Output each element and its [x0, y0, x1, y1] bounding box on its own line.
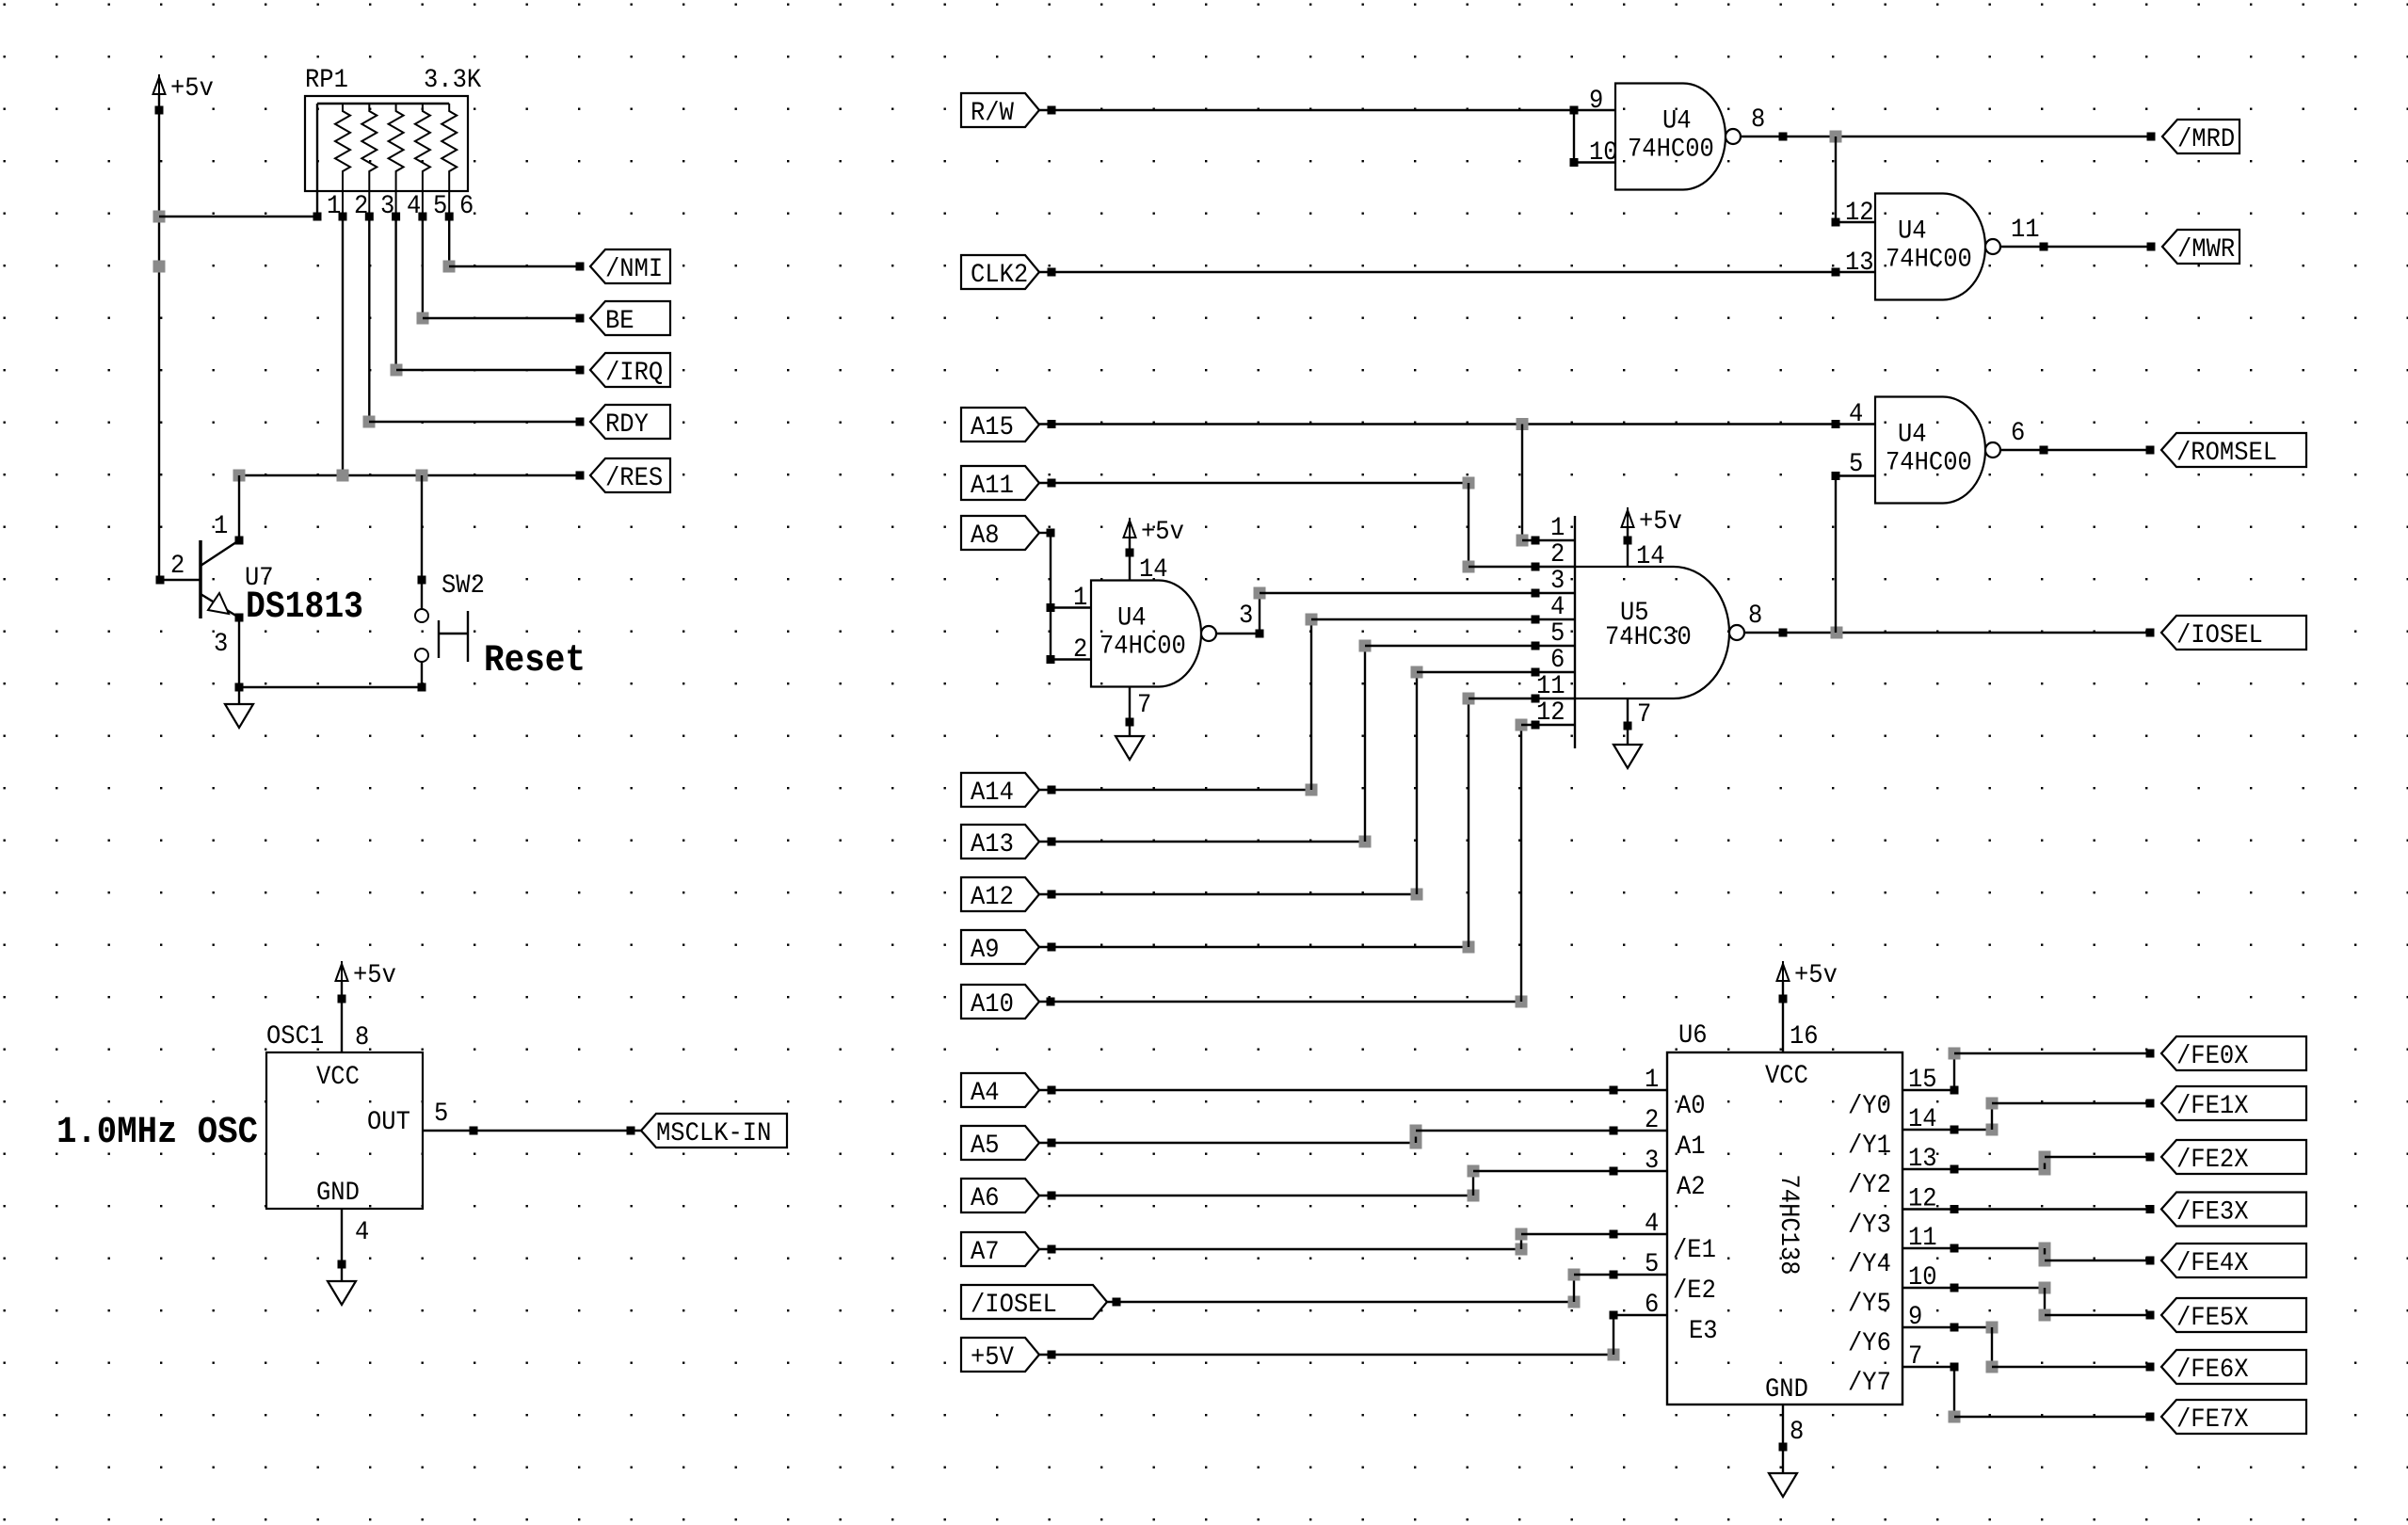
svg-text:/MRD: /MRD — [2177, 125, 2235, 154]
svg-text:6: 6 — [2011, 419, 2025, 448]
svg-text:/FE0X: /FE0X — [2176, 1042, 2249, 1071]
nand gate U5 input rail — [1574, 516, 1576, 748]
resistor pack RP1 — [305, 96, 468, 217]
wire U4d out to U5 pin 3 — [1216, 587, 1575, 638]
wire OSC1 pin 4 down — [338, 1209, 346, 1281]
svg-text:74HC00: 74HC00 — [1886, 449, 1972, 478]
wire U6 /Y7 to /FE7X — [1902, 1363, 2155, 1423]
tag /RES — [590, 458, 670, 493]
tag /MRD — [2162, 120, 2239, 154]
svg-text:/NMI: /NMI — [605, 255, 663, 284]
U4 pin 5 label — [1849, 450, 1863, 479]
svg-text:2: 2 — [1073, 635, 1087, 665]
svg-text:/FE4X: /FE4X — [2176, 1249, 2249, 1278]
label 74HC138 (U6) — [1774, 1175, 1803, 1276]
wire RP1 pin 5 to BE — [417, 217, 585, 325]
svg-text:MSCLK-IN: MSCLK-IN — [656, 1119, 771, 1148]
svg-text:12: 12 — [1845, 199, 1874, 228]
svg-text:/Y6: /Y6 — [1848, 1329, 1891, 1358]
wire RP1 pin 3 to RDY — [363, 217, 585, 428]
label OUT (OSC1) — [367, 1108, 410, 1137]
RP1 pin junction dots — [313, 213, 454, 221]
U6 pin name A2 — [1677, 1173, 1706, 1202]
tag /IOSEL (input) — [961, 1285, 1107, 1320]
tag A11 — [961, 466, 1039, 501]
tag /IRQ — [590, 353, 670, 388]
OSC1 pin 8 label — [355, 1023, 369, 1052]
svg-text:14: 14 — [1636, 542, 1665, 571]
tag /IOSEL (output) — [2161, 616, 2306, 650]
tag /FE5X — [2161, 1298, 2306, 1333]
U6 pin name /E2 — [1673, 1276, 1716, 1306]
OSC1 pin 5 label — [434, 1100, 448, 1129]
svg-text:7: 7 — [1637, 700, 1651, 730]
wire +5v to U4 pin 14 — [1129, 538, 1131, 581]
U6 pin 16 label — [1790, 1022, 1819, 1051]
U4 pin 3 label — [1239, 602, 1253, 631]
svg-text:2: 2 — [1550, 540, 1565, 570]
svg-text:A9: A9 — [971, 936, 1000, 965]
U6 pin name /Y4 — [1848, 1250, 1891, 1279]
tag RDY — [590, 405, 670, 440]
transistor U7 body — [201, 540, 244, 622]
wire A15 branch to U5 pin 1 — [1517, 425, 1576, 547]
svg-text:1: 1 — [1073, 584, 1087, 613]
label 74HC00 (U4d) — [1100, 633, 1186, 662]
label OSC1 — [266, 1022, 324, 1051]
label U6 — [1678, 1021, 1708, 1051]
svg-text:VCC: VCC — [1765, 1062, 1808, 1091]
tag MSCLK-IN — [641, 1114, 787, 1148]
U6 pin 14 label — [1908, 1105, 1937, 1134]
label VCC (OSC1) — [316, 1063, 360, 1092]
tag /FE2X — [2161, 1140, 2306, 1175]
svg-text:+5v: +5v — [170, 74, 214, 104]
label RP1 — [305, 66, 348, 95]
wire /RES to SW2 — [418, 475, 426, 609]
wire U4a out to /MRD — [1741, 131, 2156, 143]
svg-text:6: 6 — [459, 192, 474, 221]
label 74HC00 (U4c) — [1886, 449, 1972, 478]
svg-text:11: 11 — [1536, 672, 1565, 701]
wire +5v to U6 pin 16 — [1782, 981, 1784, 1052]
tag +5V — [961, 1338, 1039, 1372]
wire A11 to U5 pin 2 — [1039, 477, 1575, 573]
svg-text:1.0MHz OSC: 1.0MHz OSC — [56, 1112, 258, 1154]
svg-text:13: 13 — [1845, 249, 1874, 278]
U4 pin 13 label — [1845, 249, 1874, 278]
U4 pin 9 label — [1589, 87, 1603, 116]
U6 pin name /Y5 — [1848, 1290, 1891, 1319]
U6 pin name /Y1 — [1848, 1132, 1891, 1161]
power +5v symbol (OSC1) — [336, 961, 396, 1003]
svg-text:GND: GND — [316, 1179, 360, 1208]
svg-text:/ROMSEL: /ROMSEL — [2176, 439, 2277, 468]
label SW2 — [441, 571, 485, 601]
tag A15 — [961, 408, 1039, 442]
svg-text:GND: GND — [1765, 1375, 1808, 1405]
svg-text:5: 5 — [1550, 619, 1565, 649]
wire U6 /Y1 to /FE1X — [1902, 1098, 2155, 1136]
wire A13 to U5 pin 5 — [1039, 640, 1575, 848]
U4 pin 4 label — [1849, 400, 1863, 429]
U6 pin 9 label — [1908, 1303, 1922, 1332]
wire A7 to U6 pin 4 — [1039, 1228, 1667, 1256]
tag A4 — [961, 1073, 1039, 1108]
tag /FE6X — [2161, 1350, 2306, 1385]
U6 pin name /Y3 — [1848, 1212, 1891, 1241]
svg-text:74HC00: 74HC00 — [1886, 246, 1972, 275]
svg-text:12: 12 — [1536, 698, 1565, 728]
U4 pin 14 label — [1139, 555, 1168, 585]
svg-text:/IOSEL: /IOSEL — [971, 1291, 1057, 1320]
wire CLK2 to U4 pin 13 — [1039, 268, 1875, 277]
U4 pin 1 label — [1073, 584, 1087, 613]
U6 pin name /Y7 — [1848, 1369, 1891, 1398]
U5 pin 14 label — [1636, 542, 1665, 571]
svg-text:/IRQ: /IRQ — [605, 359, 663, 388]
U5 pin 6 label — [1550, 646, 1565, 675]
svg-text:A7: A7 — [971, 1238, 1000, 1267]
U6 pin 4 label — [1645, 1210, 1659, 1239]
wire A14 to U5 pin 4 — [1039, 614, 1575, 796]
svg-text:SW2: SW2 — [441, 571, 485, 601]
wire A6 to U6 pin 3 — [1039, 1165, 1667, 1202]
label 74HC00 (U4a) — [1628, 136, 1714, 165]
label U5 — [1620, 599, 1649, 628]
svg-text:4: 4 — [1849, 400, 1863, 429]
svg-text:/Y5: /Y5 — [1848, 1290, 1891, 1319]
svg-text:8: 8 — [1748, 602, 1762, 631]
svg-text:+5v: +5v — [1141, 518, 1184, 547]
wire +5v to U5 pin 14 — [1627, 527, 1629, 567]
svg-text:A2: A2 — [1677, 1173, 1706, 1202]
nand gate U4b — [1875, 194, 2000, 300]
svg-text:RDY: RDY — [605, 410, 649, 440]
label U4 (U4b) — [1898, 217, 1927, 247]
ground (U4d) — [1116, 736, 1144, 760]
U6 pin 10 label — [1908, 1263, 1937, 1292]
U6 pin name /Y2 — [1848, 1171, 1891, 1200]
nand gate U4c — [1875, 397, 2000, 504]
svg-text:Reset: Reset — [484, 640, 586, 682]
U6 pin name A1 — [1677, 1132, 1706, 1162]
svg-text:A12: A12 — [971, 883, 1014, 912]
label 74HC30 — [1605, 623, 1692, 652]
svg-text:74HC30: 74HC30 — [1605, 623, 1692, 652]
label U4 (U4c) — [1898, 421, 1927, 450]
label U4 (U4a) — [1662, 107, 1692, 136]
U5 pin 4 label — [1550, 593, 1565, 622]
wire A15 to U4 pin 4 — [1039, 418, 1875, 430]
wire A9 to U5 pin 11 — [1039, 693, 1575, 954]
tag A13 — [961, 825, 1039, 859]
nand gate U5 — [1575, 567, 1744, 698]
svg-text:6: 6 — [1550, 646, 1565, 675]
switch SW2 — [415, 609, 468, 687]
tag /FE7X — [2161, 1400, 2306, 1435]
U5 pin 12 label — [1536, 698, 1565, 728]
svg-text:A11: A11 — [971, 472, 1014, 501]
wire +5v to U7 pin 2 — [156, 576, 201, 585]
svg-text:VCC: VCC — [316, 1063, 360, 1092]
tag A8 — [961, 516, 1039, 551]
svg-text:/Y4: /Y4 — [1848, 1250, 1891, 1279]
svg-text:OUT: OUT — [367, 1108, 410, 1137]
svg-text:74HC138: 74HC138 — [1774, 1175, 1803, 1276]
U6 pin name /E1 — [1673, 1236, 1716, 1265]
svg-text:U4: U4 — [1898, 421, 1927, 450]
svg-text:+5v: +5v — [353, 961, 396, 990]
svg-text:RP1: RP1 — [305, 66, 348, 95]
U4 pin 8 label — [1751, 105, 1765, 135]
svg-text:/Y2: /Y2 — [1848, 1171, 1891, 1200]
svg-text:/Y7: /Y7 — [1848, 1369, 1891, 1398]
svg-text:11: 11 — [2011, 216, 2040, 245]
ground (U7) — [225, 687, 253, 728]
label GND (U6) — [1765, 1375, 1808, 1405]
wire U7 gnd to SW2 — [235, 683, 426, 692]
svg-text:8: 8 — [355, 1023, 369, 1052]
U5 pin 11 label — [1536, 672, 1565, 701]
RP1 pin numbers — [327, 192, 474, 221]
svg-text:BE: BE — [605, 307, 634, 336]
tag A7 — [961, 1232, 1039, 1267]
svg-text:/Y3: /Y3 — [1848, 1212, 1891, 1241]
svg-text:A10: A10 — [971, 990, 1014, 1019]
wire RP1 pin 2 to /RES — [342, 217, 344, 475]
U5 pin 8 label — [1748, 602, 1762, 631]
wire U6 /Y4 to /FE4X — [1902, 1243, 2155, 1267]
power +5v symbol (RP1 rail) — [153, 74, 214, 115]
svg-text:3: 3 — [214, 630, 228, 659]
wire RP1 pin 4 to /IRQ — [391, 217, 585, 377]
wire /IOSEL to U6 pin 5 — [1107, 1269, 1667, 1308]
decoder U6 74HC138 box — [1667, 1052, 1902, 1405]
U7 pin 3 label — [214, 630, 228, 659]
label 74HC00 (U4b) — [1886, 246, 1972, 275]
svg-text:A14: A14 — [971, 779, 1014, 808]
tag A6 — [961, 1179, 1039, 1213]
wire A12 to U5 pin 6 — [1039, 666, 1575, 901]
svg-text:A13: A13 — [971, 830, 1014, 859]
svg-text:/FE7X: /FE7X — [2176, 1405, 2249, 1435]
U4 pin 6 label — [2011, 419, 2025, 448]
svg-text:/E2: /E2 — [1673, 1276, 1716, 1306]
svg-text:A6: A6 — [971, 1184, 1000, 1213]
svg-text:8: 8 — [1751, 105, 1765, 135]
ground (U5) — [1613, 745, 1642, 768]
wire +5v to RP1 pin 1 — [159, 213, 322, 221]
power +5v symbol (U5) — [1622, 507, 1682, 545]
svg-text:8: 8 — [1790, 1418, 1804, 1447]
tag /FE0X — [2161, 1036, 2306, 1071]
tag R/W — [961, 93, 1039, 128]
label U4 (U4d) — [1117, 604, 1147, 634]
nand gate U4d — [1091, 581, 1216, 687]
svg-text:5: 5 — [434, 1100, 448, 1129]
svg-text:4: 4 — [1550, 593, 1565, 622]
svg-text:4: 4 — [355, 1218, 369, 1247]
svg-text:U4: U4 — [1898, 217, 1927, 247]
U7 pin 1 label — [214, 512, 228, 541]
label 1.0MHz OSC — [56, 1112, 258, 1154]
wire R/W to U4 pin 9 — [1039, 106, 1615, 115]
wire /RES to U7 pin 1 — [235, 475, 244, 545]
U6 pin 3 label — [1645, 1147, 1659, 1176]
nand gate U4a — [1615, 84, 1741, 190]
svg-text:U4: U4 — [1117, 604, 1147, 634]
label 3.3K — [424, 66, 481, 95]
svg-text:1: 1 — [214, 512, 228, 541]
U6 pin 6 label — [1645, 1291, 1659, 1320]
tag CLK2 — [961, 255, 1039, 290]
svg-text:E3: E3 — [1689, 1317, 1718, 1346]
label DS1813 — [246, 586, 363, 629]
svg-text:/FE1X: /FE1X — [2176, 1092, 2249, 1121]
U6 pin 11 label — [1908, 1224, 1937, 1253]
ground (OSC1) — [328, 1281, 356, 1305]
wire /MRD branch to U4 pin 12 — [1832, 136, 1876, 227]
svg-text:7: 7 — [1137, 691, 1151, 720]
svg-text:A0: A0 — [1677, 1092, 1706, 1121]
tag A9 — [961, 930, 1039, 965]
U6 pin 7 label — [1908, 1342, 1922, 1372]
tag /FE1X — [2161, 1086, 2306, 1121]
U4 pin 10 label — [1589, 138, 1618, 168]
svg-text:DS1813: DS1813 — [246, 586, 363, 629]
power +5v symbol (U6) — [1777, 961, 1838, 1003]
U6 pin name E3 — [1689, 1317, 1718, 1346]
svg-text:A4: A4 — [971, 1079, 1000, 1108]
svg-text:A8: A8 — [971, 522, 1000, 551]
U6 pin name /Y6 — [1848, 1329, 1891, 1358]
svg-text:3: 3 — [1239, 602, 1253, 631]
U6 pin 12 label — [1908, 1185, 1937, 1214]
U7 pin 2 label — [170, 552, 185, 581]
tag A14 — [961, 773, 1039, 808]
U6 pin 15 label — [1908, 1066, 1937, 1095]
U6 pin name A0 — [1677, 1092, 1706, 1121]
svg-text:10: 10 — [1589, 138, 1618, 168]
OSC1 pin 4 label — [355, 1218, 369, 1247]
svg-text:CLK2: CLK2 — [971, 261, 1028, 290]
svg-text:/IOSEL: /IOSEL — [2176, 621, 2263, 650]
wire /RES net — [233, 470, 585, 482]
wire U7 pin 3 down — [238, 618, 240, 687]
wire U6 /Y3 to /FE3X — [1902, 1205, 2155, 1213]
U6 pin 5 label — [1645, 1250, 1659, 1279]
label VCC (U6) — [1765, 1062, 1808, 1091]
tag A5 — [961, 1126, 1039, 1161]
wire A10 to U5 pin 12 — [1039, 719, 1575, 1008]
svg-text:A15: A15 — [971, 413, 1014, 442]
svg-text:/FE3X: /FE3X — [2176, 1198, 2249, 1228]
svg-text:74HC00: 74HC00 — [1100, 633, 1186, 662]
wire U5 gnd — [1624, 698, 1632, 745]
svg-text:/RES: /RES — [605, 464, 663, 493]
tag A10 — [961, 985, 1039, 1019]
svg-text:+5V: +5V — [971, 1343, 1014, 1372]
tag A12 — [961, 877, 1039, 912]
wire U6 gnd — [1779, 1405, 1788, 1473]
ground (U6) — [1769, 1473, 1797, 1497]
svg-text:U4: U4 — [1662, 107, 1692, 136]
svg-text:+5v: +5v — [1639, 507, 1682, 537]
svg-text:/FE2X: /FE2X — [2176, 1146, 2249, 1175]
wire U4c out to /ROMSEL — [2000, 446, 2155, 455]
U4 pin 11 label — [2011, 216, 2040, 245]
svg-text:/FE6X: /FE6X — [2176, 1356, 2249, 1385]
svg-text:R/W: R/W — [971, 99, 1014, 128]
U4 pin 12 label — [1845, 199, 1874, 228]
wire OSC1 OUT to MSCLK-IN — [423, 1127, 641, 1135]
wire U6 /Y2 to /FE2X — [1902, 1151, 2155, 1176]
wire U5 out to /IOSEL — [1744, 627, 2155, 639]
svg-text:+5v: +5v — [1794, 961, 1838, 990]
tag /FE4X — [2161, 1244, 2306, 1278]
wire A5 to U6 pin 2 — [1039, 1125, 1667, 1149]
wire A8 to U4 pins 1,2 — [1039, 529, 1091, 665]
U6 pin 13 label — [1908, 1145, 1937, 1174]
wire U4b out to /MWR — [2000, 243, 2156, 251]
wire U6 /Y6 to /FE6X — [1902, 1322, 2155, 1373]
svg-text:A5: A5 — [971, 1132, 1000, 1161]
svg-text:16: 16 — [1790, 1022, 1819, 1051]
U5 pin 7 label — [1637, 700, 1651, 730]
svg-text:U6: U6 — [1678, 1021, 1708, 1051]
wire branch to U4 pin 10 — [1570, 110, 1616, 167]
U4 pin 7 label — [1137, 691, 1151, 720]
svg-text:/FE5X: /FE5X — [2176, 1304, 2249, 1333]
wire U6 /Y5 to /FE5X — [1902, 1282, 2155, 1322]
tag /ROMSEL — [2161, 433, 2306, 468]
tag /MWR — [2162, 230, 2239, 265]
U6 pin 8 label — [1790, 1418, 1804, 1447]
svg-text:3: 3 — [1550, 567, 1565, 596]
tag /NMI — [590, 249, 670, 284]
svg-text:3.3K: 3.3K — [424, 66, 481, 95]
wire +5v to OSC1 pin 8 — [341, 981, 343, 1052]
wire U5 out branch to U4 pin 5 — [1832, 472, 1876, 633]
svg-text:2: 2 — [170, 552, 185, 581]
U6 pin 2 label — [1645, 1106, 1659, 1135]
U5 pin 5 label — [1550, 619, 1565, 649]
svg-text:/MWR: /MWR — [2177, 235, 2235, 265]
U4 pin 2 label — [1073, 635, 1087, 665]
wire +5v rail — [153, 94, 166, 580]
svg-text:OSC1: OSC1 — [266, 1022, 324, 1051]
oscillator OSC1 box — [266, 1052, 423, 1209]
label Reset — [484, 640, 586, 682]
wire RP1 pin 6 to /NMI — [443, 217, 585, 273]
wire U6 /Y0 to /FE0X — [1902, 1048, 2155, 1095]
tag BE — [590, 301, 670, 336]
tag /FE3X — [2161, 1193, 2306, 1228]
svg-text:A1: A1 — [1677, 1132, 1706, 1162]
svg-text:/Y0: /Y0 — [1848, 1092, 1891, 1121]
U6 pin name /Y0 — [1848, 1092, 1891, 1121]
U5 pin 1 label — [1550, 514, 1565, 543]
wire U4d gnd — [1126, 687, 1134, 737]
power +5v symbol (U4d) — [1124, 518, 1184, 557]
svg-text:/E1: /E1 — [1673, 1236, 1716, 1265]
svg-text:1: 1 — [1550, 514, 1565, 543]
U6 pin 1 label — [1645, 1066, 1659, 1095]
svg-text:9: 9 — [1589, 87, 1603, 116]
svg-text:/Y1: /Y1 — [1848, 1132, 1891, 1161]
U5 pin 3 label — [1550, 567, 1565, 596]
